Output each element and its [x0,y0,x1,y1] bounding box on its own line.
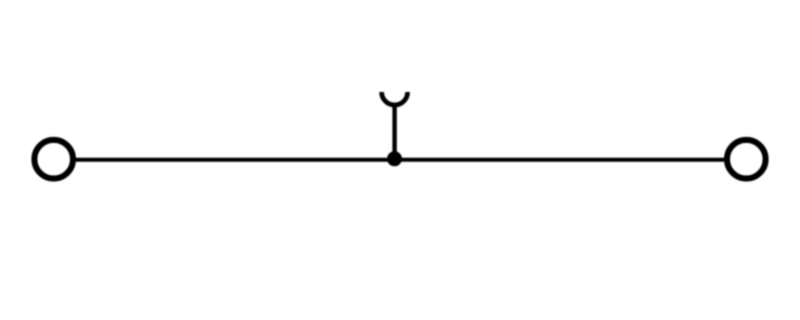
junction dot [387,151,402,166]
socket symbol (upward open semicircle) [382,92,408,105]
wire (horizontal conductor) [75,158,726,162]
terminal circle left [34,140,73,179]
terminal circle right [727,140,766,179]
wire (vertical stub to socket) [392,105,396,159]
